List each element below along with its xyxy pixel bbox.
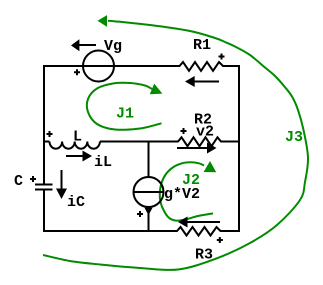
svg-text:L: L [73, 129, 82, 146]
svg-text:Vg: Vg [104, 38, 122, 55]
svg-text:R3: R3 [195, 247, 213, 264]
svg-text:R1: R1 [193, 37, 211, 54]
svg-text:iL: iL [94, 154, 112, 171]
svg-text:g*V2: g*V2 [164, 186, 200, 203]
svg-text:J1: J1 [116, 106, 134, 123]
svg-text:iC: iC [67, 194, 85, 211]
svg-text:C: C [14, 173, 23, 190]
svg-text:J3: J3 [285, 129, 303, 146]
svg-text:v2: v2 [196, 124, 214, 141]
